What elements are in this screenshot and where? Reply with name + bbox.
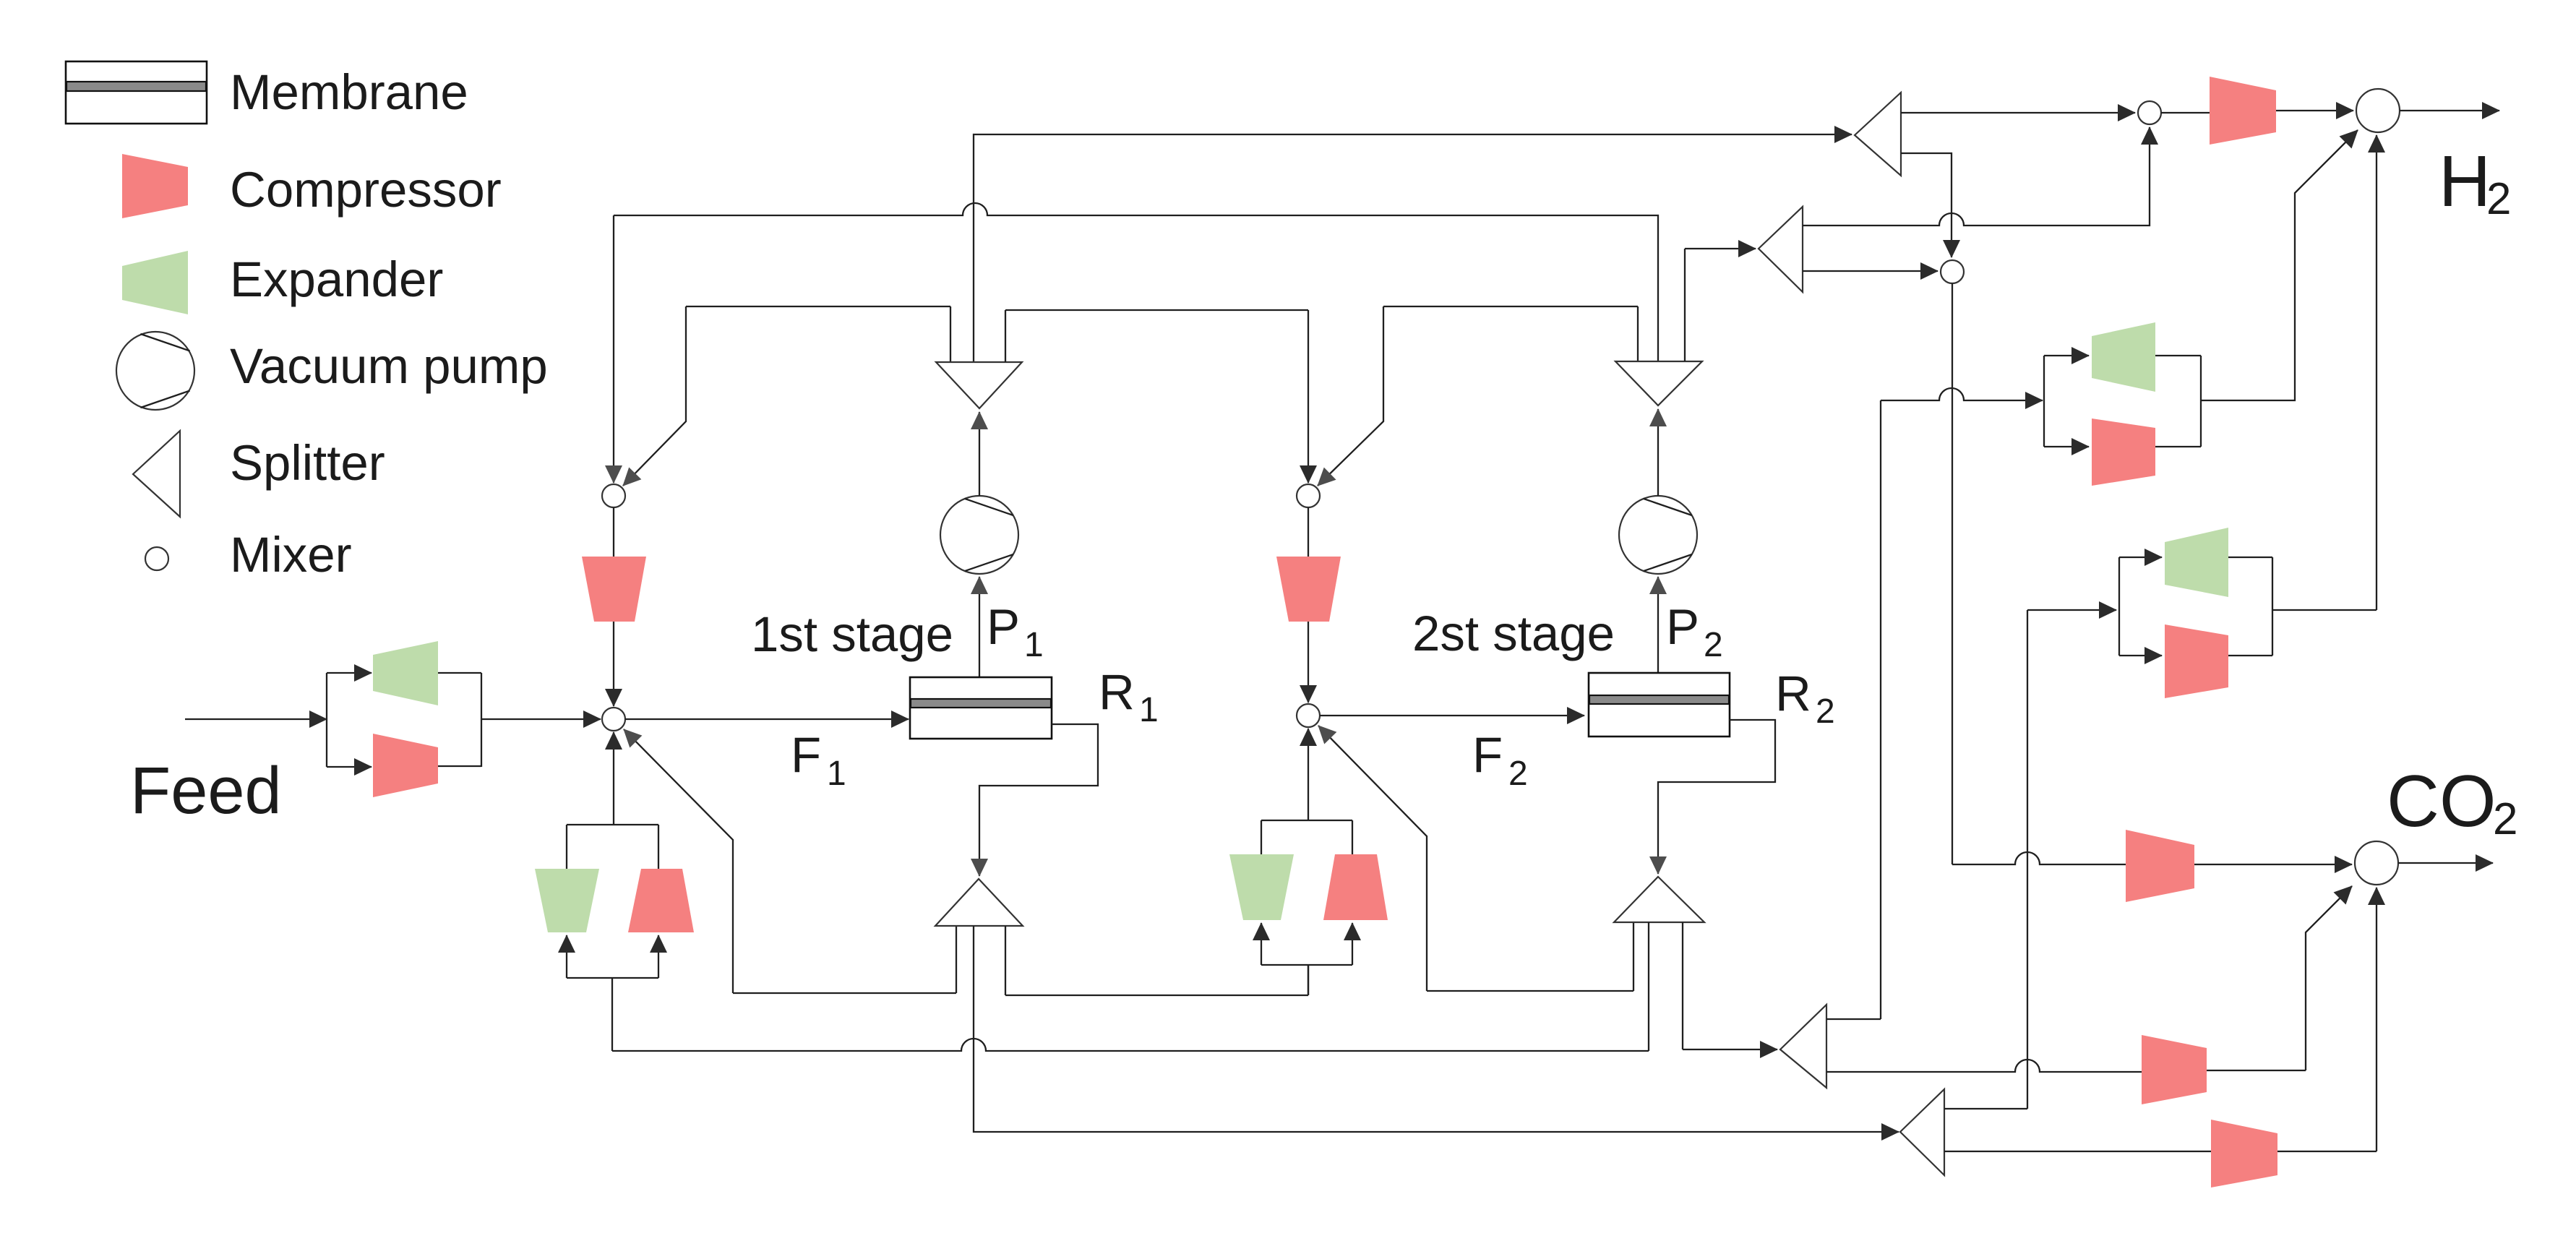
svg-text:2: 2 — [2486, 174, 2511, 224]
svg-text:Mixer: Mixer — [230, 527, 352, 583]
svg-text:1: 1 — [827, 755, 846, 793]
svg-text:F: F — [1472, 727, 1503, 783]
svg-text:2: 2 — [1704, 626, 1723, 664]
svg-text:CO: CO — [2387, 761, 2496, 842]
svg-text:1: 1 — [1139, 691, 1159, 729]
svg-text:2: 2 — [1816, 692, 1835, 731]
svg-text:Compressor: Compressor — [230, 162, 502, 218]
svg-text:R: R — [1099, 664, 1135, 720]
svg-text:Membrane: Membrane — [230, 64, 468, 120]
svg-text:H: H — [2439, 141, 2491, 222]
svg-text:1: 1 — [1024, 626, 1044, 664]
svg-text:Expander: Expander — [230, 252, 443, 307]
svg-text:P: P — [987, 599, 1020, 655]
svg-text:P: P — [1666, 599, 1699, 655]
svg-text:2: 2 — [1508, 755, 1528, 793]
svg-text:1st stage: 1st stage — [751, 606, 953, 662]
svg-text:Vacuum pump: Vacuum pump — [230, 338, 548, 394]
svg-text:F: F — [791, 727, 821, 783]
svg-text:Feed: Feed — [130, 754, 282, 828]
svg-text:2: 2 — [2493, 794, 2517, 844]
svg-text:R: R — [1775, 666, 1811, 721]
svg-text:Splitter: Splitter — [230, 435, 385, 491]
svg-text:2st stage: 2st stage — [1412, 606, 1615, 661]
